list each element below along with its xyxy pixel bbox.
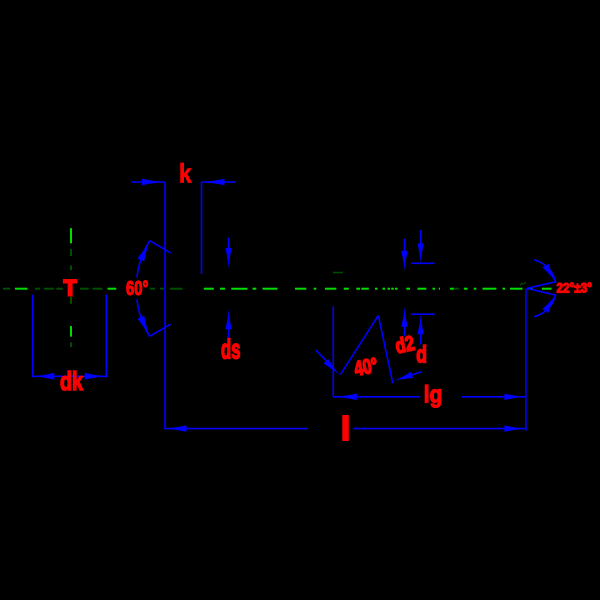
svg-text:k: k bbox=[179, 158, 192, 188]
svg-text:lg: lg bbox=[424, 382, 443, 409]
svg-text:T: T bbox=[64, 276, 78, 301]
svg-text:22°±3°: 22°±3° bbox=[557, 280, 593, 296]
svg-text:d: d bbox=[416, 341, 427, 368]
svg-text:40°: 40° bbox=[352, 354, 379, 381]
svg-text:60°: 60° bbox=[126, 277, 149, 300]
svg-text:ds: ds bbox=[221, 334, 241, 365]
svg-text:dk: dk bbox=[60, 366, 83, 396]
svg-text:l: l bbox=[341, 410, 350, 447]
